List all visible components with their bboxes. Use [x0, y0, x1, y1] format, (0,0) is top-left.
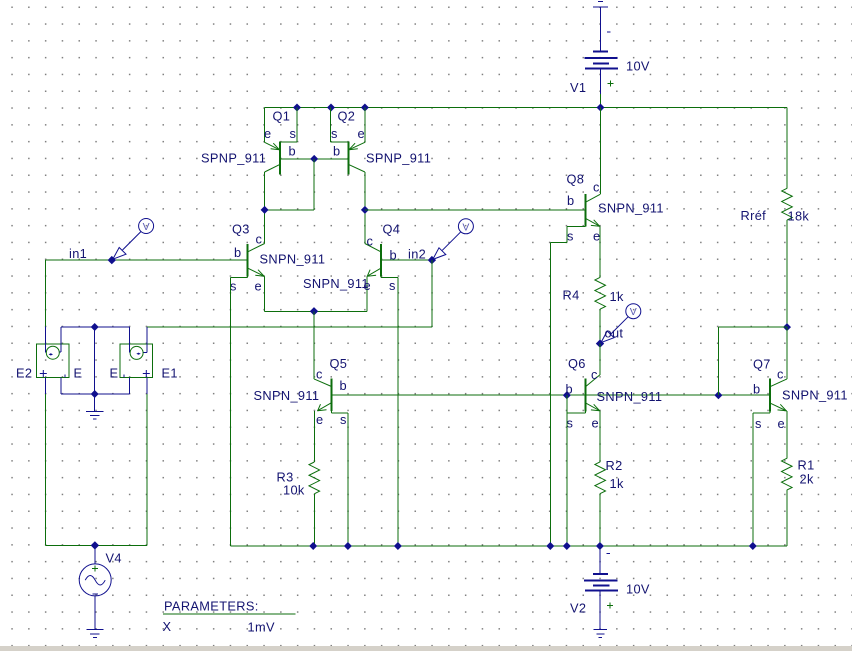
svg-text:c: c — [777, 367, 784, 382]
svg-text:Q1: Q1 — [273, 109, 291, 124]
svg-text:e: e — [316, 412, 323, 427]
wire in2 — [381, 259, 432, 261]
node E top — [91, 323, 99, 331]
svg-text:SNPN_911: SNPN_911 — [260, 252, 326, 267]
pin wires E network top — [61, 327, 129, 353]
svg-text:e: e — [358, 126, 365, 141]
svg-text:1k: 1k — [610, 289, 624, 304]
wire E2 left down to rail — [45, 394, 47, 545]
wire in2 down — [431, 260, 433, 327]
node dots on bottom rail — [309, 542, 757, 550]
svg-text:b: b — [333, 144, 340, 159]
svg-text:SNPN_911: SNPN_911 — [303, 276, 369, 291]
svg-text:10V: 10V — [626, 582, 650, 597]
svg-text:b: b — [340, 378, 347, 393]
svg-text:b: b — [753, 382, 760, 397]
wire top rail — [265, 107, 787, 109]
wire Q2.c to Q8.b — [365, 209, 586, 211]
svg-text:SNPN_911: SNPN_911 — [597, 389, 663, 404]
svg-text:1mV: 1mV — [248, 620, 275, 635]
svg-text:R2: R2 — [606, 458, 623, 473]
svg-text:Rréf: Rréf — [741, 208, 767, 223]
svg-text:V: V — [143, 221, 150, 233]
svg-text:1k: 1k — [610, 476, 624, 491]
svg-text:e: e — [264, 126, 271, 141]
ground at V4 — [86, 630, 103, 638]
svg-text:SPNP_911: SPNP_911 — [366, 151, 431, 166]
svg-text:SPNP_911: SPNP_911 — [201, 151, 266, 166]
svg-text:Q3: Q3 — [232, 222, 250, 237]
resistor R3 — [309, 462, 320, 494]
svg-text:in2: in2 — [408, 247, 426, 262]
pin E1 right bottom — [146, 378, 148, 395]
pin E2 left bottom — [45, 378, 47, 395]
node dots on top rail — [293, 104, 605, 112]
svg-text:V: V — [462, 221, 469, 233]
wire E1 right down to rail — [146, 394, 148, 545]
svg-text:R4: R4 — [563, 288, 580, 303]
svg-text:Q6: Q6 — [568, 356, 586, 371]
svg-text:Q5: Q5 — [330, 356, 348, 371]
svg-text:E2: E2 — [16, 366, 32, 381]
svg-text:V2: V2 — [570, 601, 586, 616]
resistor R4 — [595, 277, 606, 309]
wire E1 to in2 — [147, 326, 432, 328]
svg-text:b: b — [566, 382, 573, 397]
svg-text:Q4: Q4 — [383, 222, 401, 237]
resistor Rref — [786, 108, 788, 189]
svg-text:e: e — [255, 279, 262, 294]
transistor Q6 (SNPN_911) — [567, 344, 600, 462]
node dot base join — [310, 155, 318, 163]
probe V at in1 — [113, 219, 154, 260]
wire Q7.s down — [752, 413, 754, 546]
svg-text:2k: 2k — [800, 472, 814, 487]
dependent source E2 — [37, 344, 70, 378]
wire in1 — [46, 259, 248, 261]
svg-text:s: s — [389, 278, 395, 293]
svg-text:s: s — [567, 416, 573, 431]
svg-text:b: b — [234, 245, 241, 260]
battery V1 — [585, 9, 619, 94]
svg-text:E1: E1 — [162, 366, 178, 381]
node out — [596, 339, 604, 347]
dependent source E1 — [120, 344, 153, 378]
node emitters — [310, 307, 318, 315]
wire Q3/Q4 emitters join — [265, 310, 367, 312]
probe V at out — [601, 304, 641, 343]
svg-text:b: b — [567, 193, 574, 208]
svg-text:SNPN_911: SNPN_911 — [782, 388, 848, 403]
ground at V1 top — [593, 2, 608, 10]
svg-text:e: e — [778, 416, 785, 431]
svg-text:s: s — [340, 412, 346, 427]
node in1 — [108, 256, 116, 264]
svg-text:V4: V4 — [106, 551, 122, 566]
transistor Q3 (SNPN_911) — [231, 244, 265, 312]
svg-text:E: E — [74, 366, 83, 381]
wire Q8.s down to rail — [550, 242, 552, 546]
svg-text:Q2: Q2 — [338, 109, 356, 124]
transistor Q8 (SNPN_911) — [551, 108, 601, 278]
node Rref bottom — [783, 323, 791, 331]
transistor Q7 (SNPN_911) — [753, 327, 787, 458]
wire Rref to Q7.b — [718, 327, 787, 395]
svg-text:Q8: Q8 — [567, 172, 585, 187]
svg-text:out: out — [605, 326, 624, 341]
wire base join down — [313, 159, 315, 210]
node V4 — [91, 541, 99, 549]
wire E mid vertical — [94, 327, 96, 394]
svg-text:V: V — [630, 306, 637, 318]
parameters underline — [163, 613, 296, 615]
transistor Q1 (SPNP_911) — [265, 108, 298, 175]
svg-text:s: s — [331, 126, 337, 141]
svg-text:c: c — [593, 180, 600, 195]
svg-text:10k: 10k — [283, 483, 305, 498]
node dot base row at Q6.s — [563, 391, 571, 399]
svg-text:10V: 10V — [626, 59, 650, 74]
svg-text:E: E — [110, 366, 119, 381]
node dot base row at Q7 branch — [714, 391, 722, 399]
svg-text:s: s — [567, 229, 573, 244]
wire emitters to Q5.c — [313, 311, 315, 379]
bottom window strip — [0, 646, 852, 651]
pin E1 right top — [143, 327, 147, 352]
node dot at Q2.c — [361, 206, 369, 214]
wire Q5.s down — [347, 413, 349, 546]
wire Q3.s down — [230, 277, 232, 546]
svg-text:V1: V1 — [570, 80, 586, 95]
source V4 — [79, 545, 111, 629]
svg-text:X: X — [163, 619, 172, 634]
svg-text:Q7: Q7 — [753, 357, 771, 372]
svg-text:s: s — [290, 126, 296, 141]
svg-text:SNPN_911: SNPN_911 — [254, 388, 320, 403]
svg-text:SNPN_911: SNPN_911 — [598, 201, 664, 216]
wire V1 to rail — [600, 94, 602, 108]
wire bottom rail — [231, 545, 787, 547]
probe V at in2 — [433, 219, 474, 260]
transistor Q5 (SNPN_911, mirrored) — [314, 378, 348, 462]
svg-text:e: e — [593, 229, 600, 244]
ground at E — [86, 394, 103, 419]
svg-text:c: c — [316, 367, 323, 382]
svg-text:PARAMETERS:: PARAMETERS: — [164, 599, 259, 614]
svg-text:18k: 18k — [788, 209, 810, 224]
svg-text:c: c — [256, 232, 263, 247]
wire Q1.c / Q3.c vertical — [264, 172, 266, 244]
svg-text:e: e — [592, 416, 599, 431]
resistor R2 — [595, 462, 606, 494]
wire main base row Q5-Q6-Q7 — [332, 394, 770, 396]
wire Q1.b to Q2.b — [280, 158, 349, 160]
node E bottom — [91, 390, 99, 398]
wire bottom left rail — [46, 544, 147, 546]
node dot at Q1.c — [261, 206, 269, 214]
ground at V2 — [593, 630, 607, 638]
wire Q2.c / Q4.c vertical — [364, 172, 366, 244]
battery V2 — [584, 546, 618, 629]
svg-text:s: s — [755, 416, 761, 431]
svg-text:in1: in1 — [69, 246, 87, 261]
wire in1 down to E2 — [45, 260, 47, 326]
pin E2 left top — [45, 327, 47, 353]
svg-text:c: c — [591, 367, 598, 382]
node in2 — [428, 256, 436, 264]
wire Q1.c junction horizontal — [265, 209, 315, 211]
svg-text:R1: R1 — [798, 458, 815, 473]
pin wires E network bottom — [61, 378, 129, 395]
wire Q4.s down — [397, 277, 399, 546]
svg-text:b: b — [289, 144, 296, 159]
transistor Q2 (SPNP_911) — [331, 108, 365, 175]
transistor Q4 (SNPN_911, mirrored) — [365, 244, 398, 312]
wire Q6.s/base down to rail — [566, 395, 568, 546]
resistor R1 — [782, 458, 793, 490]
svg-text:c: c — [367, 234, 374, 249]
